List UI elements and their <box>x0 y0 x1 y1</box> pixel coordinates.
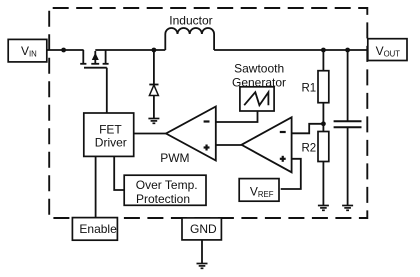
terminal Enable <box>72 218 117 241</box>
inductor L1 <box>165 28 214 50</box>
svg-text:GND: GND <box>190 222 217 236</box>
wire FET Driver to Enable <box>95 156 97 218</box>
wire R2 to ground <box>322 162 324 206</box>
over temperature protection block <box>124 175 206 206</box>
transistor Q1 FET switch <box>80 50 108 68</box>
wire VIN to MOSFET <box>47 49 84 51</box>
svg-text:Sawtooth: Sawtooth <box>234 62 284 76</box>
terminal VIN <box>8 39 47 62</box>
ground (GND terminal) <box>197 264 208 269</box>
ground (diode) <box>148 119 159 124</box>
wire GND to ground <box>201 240 203 264</box>
wire feedback divider to error amp inverting input <box>292 124 324 134</box>
node feedback junction <box>321 121 326 126</box>
node R1 top <box>321 48 326 53</box>
resistor R2 <box>318 132 329 162</box>
FET Driver block <box>84 113 134 156</box>
svg-text:Over Temp.: Over Temp. <box>136 178 198 192</box>
node VIN junction <box>61 48 66 53</box>
svg-text:FET: FET <box>99 122 122 136</box>
capacitor C1 <box>334 50 362 206</box>
sawtooth generator block <box>240 87 274 111</box>
svg-text:R1: R1 <box>302 83 317 95</box>
wire VREF to error amp non-inverting input <box>281 159 301 189</box>
terminal VOUT <box>368 39 407 61</box>
vref block <box>239 179 279 202</box>
wire MOSFET to inductor <box>95 49 165 51</box>
wire gate to FET Driver <box>106 68 108 113</box>
wire FET Driver to Over Temp Protection <box>114 156 124 190</box>
wire error amp output to PWM comparator <box>216 144 242 146</box>
diode D1 <box>149 50 158 118</box>
wire R1 to R2 <box>322 103 324 132</box>
IC boundary dashed box <box>49 8 367 218</box>
svg-text:PWM: PWM <box>160 151 189 165</box>
op-amp U1 PWM comparator <box>166 107 216 161</box>
wire sawtooth generator to PWM inverting input <box>216 111 258 122</box>
ground (capacitor) <box>342 206 353 211</box>
svg-text:Driver: Driver <box>95 135 127 149</box>
svg-text:Enable: Enable <box>79 222 117 236</box>
node capacitor top <box>345 48 350 53</box>
ground (R2) <box>318 206 329 211</box>
op-amp U2 error amplifier <box>242 117 292 172</box>
svg-text:R2: R2 <box>302 143 317 155</box>
wire top rail to R1 <box>322 50 324 71</box>
resistor R1 <box>318 71 329 103</box>
node switch node junction <box>152 48 157 53</box>
wire PWM output to FET Driver <box>134 133 166 135</box>
terminal GND <box>182 218 221 240</box>
svg-text:Inductor: Inductor <box>169 14 212 28</box>
wire inductor to VOUT <box>214 49 368 51</box>
svg-text:Protection: Protection <box>136 192 190 206</box>
